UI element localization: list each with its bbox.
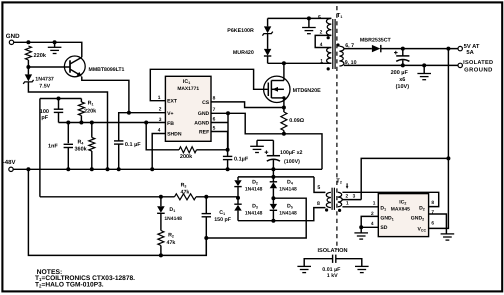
svg-text:-48V: -48V (3, 159, 16, 166)
ground (primary 0V, top-left) (54, 42, 56, 47)
svg-text:220k: 220k (34, 52, 47, 59)
wire rail to bridge top (272, 169, 274, 177)
T1 secondary winding (6,7 - 9,10) (339, 46, 344, 66)
wire primary top (0V) (268, 17, 332, 19)
svg-text:FB: FB (167, 121, 174, 127)
wire GND1/SD to ground (361, 216, 378, 232)
svg-text:8: 8 (213, 96, 216, 102)
svg-text:6: 6 (431, 221, 434, 227)
svg-text:ISOLATED: ISOLATED (463, 60, 493, 66)
diode D3 1N4148 (237, 198, 239, 204)
node bridge left mid (236, 196, 240, 200)
T2 core (331, 188, 333, 210)
svg-text:4: 4 (158, 127, 161, 133)
svg-text:GND: GND (198, 111, 210, 117)
svg-text:0.1 µF: 0.1 µF (125, 142, 141, 148)
T1 primary winding lower (pins 4-1) (327, 48, 332, 64)
svg-text:1N4148: 1N4148 (279, 187, 297, 193)
capacitor 0.1uF (REF) (227, 150, 229, 157)
wire SHDN to rail (152, 134, 165, 170)
resistor 220k (bias) (25, 46, 31, 60)
wire drain rail (268, 62, 332, 64)
wire EXT to gate (150, 69, 267, 100)
svg-text:2: 2 (320, 29, 323, 35)
ground (isolation left) (297, 265, 311, 267)
svg-text:360k: 360k (75, 147, 88, 153)
svg-text:3: 3 (159, 117, 162, 123)
svg-text:1N4148: 1N4148 (164, 216, 182, 222)
capacitor 200uF x6 (402, 49, 404, 56)
wire bridge bottom to T2 pin 8 (238, 208, 325, 221)
wire T2 pin 5 (314, 177, 325, 193)
op-amp U2 IC2 MAX845 (378, 194, 428, 237)
svg-text:T2=HALO TGM-010P3.: T2=HALO TGM-010P3. (35, 281, 104, 288)
svg-text:MAX1771: MAX1771 (177, 86, 199, 92)
wire VCC (429, 227, 450, 229)
wire GND rail to collector (14, 42, 82, 57)
svg-text:7: 7 (213, 107, 216, 113)
svg-text:pF: pF (41, 115, 48, 121)
ground (MAX845 left) (354, 232, 368, 234)
svg-text:MTD6N20E: MTD6N20E (293, 88, 322, 94)
wire bottom return rail (28, 169, 206, 255)
capacitor 100uF x2 100V input bulk (272, 140, 274, 155)
svg-text:GROUND: GROUND (464, 67, 493, 74)
wire 5V down to MAX845 VCC (447, 49, 449, 229)
op-amp U1 IC1 MAX1771 (165, 76, 211, 141)
transistor Q1 MMBT8099LT1 (64, 56, 85, 77)
svg-text:100µF x2: 100µF x2 (280, 150, 303, 156)
resistor R1 220k (80, 99, 82, 103)
svg-text:MBR2535CT: MBR2535CT (360, 38, 392, 44)
wire FB to 200k (146, 123, 179, 150)
node T1 primary phase dots (327, 36, 330, 39)
svg-text:8: 8 (431, 200, 434, 206)
wire base (28, 66, 70, 68)
diode D1 1N4148 (160, 197, 162, 206)
svg-text:EXT: EXT (167, 99, 178, 105)
wire gnd to 100uF (257, 139, 273, 141)
resistor R2 47k (160, 213, 162, 230)
capacitor 0.1uF (V+ bypass) (119, 113, 166, 141)
wire 5V output (381, 48, 458, 50)
node base junction (26, 65, 30, 69)
ground (MAX845 right) (441, 233, 455, 235)
wire feedback mid (40, 196, 175, 198)
svg-text:5: 5 (317, 185, 320, 191)
resistor 200k (179, 147, 197, 153)
wire secondary 6,7 to diode (344, 48, 372, 50)
svg-text:1N4148: 1N4148 (279, 211, 297, 217)
svg-text:(10V): (10V) (396, 84, 410, 90)
diode D4 1N4148 (272, 177, 274, 182)
ground (primary, at T1 top) (308, 18, 310, 27)
wire isolation barrier (dashed) (336, 6, 338, 250)
svg-text:4: 4 (371, 221, 374, 227)
wire bridge top (238, 176, 314, 178)
svg-text:220k: 220k (84, 109, 97, 115)
resistor R3 47k (175, 194, 197, 200)
ground (analog, near 100uF) (250, 145, 264, 147)
svg-text:1N4148: 1N4148 (245, 211, 263, 217)
diode D2 1N4148 (237, 177, 239, 180)
wire GND2 to ground (429, 214, 447, 234)
svg-text:CS: CS (202, 100, 210, 106)
zener D 1N4737 7.5V (27, 67, 29, 74)
wire REF (211, 132, 228, 150)
svg-text:REF: REF (199, 130, 209, 136)
svg-text:1: 1 (320, 59, 323, 65)
svg-text:2: 2 (346, 194, 349, 200)
capacitor C1 150pF (205, 197, 207, 214)
wire FB net (59, 122, 166, 124)
svg-text:100: 100 (40, 109, 49, 115)
wire sense vertical (to feedback bottom) (39, 99, 41, 197)
svg-text:(100V): (100V) (284, 159, 300, 165)
svg-text:1: 1 (373, 200, 376, 206)
capacitor 0.01uF 1kV Y-cap (332, 255, 334, 263)
ground (isolated secondary) (423, 65, 425, 73)
wire pin2-pin4 jog (315, 35, 331, 47)
node 5V terminal (458, 46, 462, 50)
svg-text:47k: 47k (167, 240, 176, 246)
svg-text:1nF: 1nF (48, 143, 58, 149)
svg-text:SHDN: SHDN (167, 132, 182, 138)
svg-text:150 pF: 150 pF (214, 217, 232, 223)
wire GND/AGND tie (211, 113, 228, 150)
diode P6KE100R transient suppressor (267, 18, 269, 26)
svg-text:MMBT8099LT1: MMBT8099LT1 (89, 67, 125, 73)
svg-text:x6: x6 (399, 77, 405, 83)
T2 secondary winding (338, 192, 342, 207)
svg-text:MUR420: MUR420 (233, 50, 254, 56)
capacitor 100pF (58, 99, 60, 110)
svg-text:1N4148: 1N4148 (245, 187, 263, 193)
svg-text:5: 5 (318, 15, 321, 21)
diode MBR2535CT (372, 45, 381, 52)
wire T2 sec bottom to D1 pin (342, 206, 378, 208)
resistor R4 360k (91, 123, 93, 138)
svg-text:5A: 5A (466, 50, 474, 56)
svg-text:1N4737: 1N4737 (35, 76, 54, 82)
T1 core (332, 19, 334, 69)
transistor Q2 MTD6N20E (264, 76, 290, 102)
resistor 0.09 ohm sense (283, 108, 285, 113)
T2 primary winding (326, 192, 331, 207)
svg-text:1: 1 (346, 200, 349, 206)
svg-text:V+: V+ (167, 111, 173, 117)
svg-text:0.1µF: 0.1µF (234, 157, 249, 163)
svg-text:1 kV: 1 kV (327, 273, 338, 279)
capacitor 1nF (67, 123, 69, 144)
wire zener to -48V rail (28, 82, 107, 169)
svg-text:GND: GND (6, 33, 20, 40)
svg-text:P6KE100R: P6KE100R (227, 28, 254, 34)
node V+ junction (127, 111, 131, 115)
wire 5V branch to T2 center tap (361, 158, 448, 199)
svg-text:0.09Ω: 0.09Ω (289, 118, 304, 124)
diode MUR420 (264, 49, 271, 56)
svg-text:GND2: GND2 (411, 215, 424, 221)
svg-text:GND1: GND1 (380, 215, 393, 221)
svg-text:200 µF: 200 µF (391, 70, 409, 76)
wire isolated ground (344, 64, 458, 66)
svg-text:2: 2 (159, 107, 162, 113)
svg-text:200k: 200k (180, 154, 193, 160)
wire sense top (40, 98, 82, 100)
wire GND to sense resistor bottom (228, 113, 284, 134)
svg-text:5V AT: 5V AT (464, 44, 480, 50)
svg-text:SD: SD (380, 225, 387, 231)
svg-text:AGND: AGND (194, 121, 209, 127)
svg-text:ISOLATION: ISOLATION (318, 248, 348, 254)
diode D5 1N4148 (272, 198, 274, 204)
node ISOLATED GROUND terminal (458, 63, 462, 67)
svg-text:3: 3 (353, 193, 356, 199)
svg-text:4: 4 (320, 42, 323, 48)
wire emitter to V+ (82, 77, 129, 113)
wire CS to source (211, 102, 284, 108)
node bridge right mid (271, 196, 275, 200)
svg-text:7.5V: 7.5V (39, 84, 50, 90)
wire sense bottom to rail corner (284, 134, 322, 170)
ground (isolation right) (355, 265, 369, 267)
svg-text:47k: 47k (181, 190, 190, 196)
svg-text:8: 8 (317, 201, 320, 207)
T1 primary winding upper (pins 5-2) (326, 18, 331, 35)
wire T2 sec top to D2 (342, 192, 438, 206)
wire T2 sec center tap (342, 199, 361, 201)
wire bridge mid-right to rail (206, 198, 306, 238)
svg-text:MAX845: MAX845 (391, 207, 410, 213)
wire -48V rail (13, 168, 322, 170)
